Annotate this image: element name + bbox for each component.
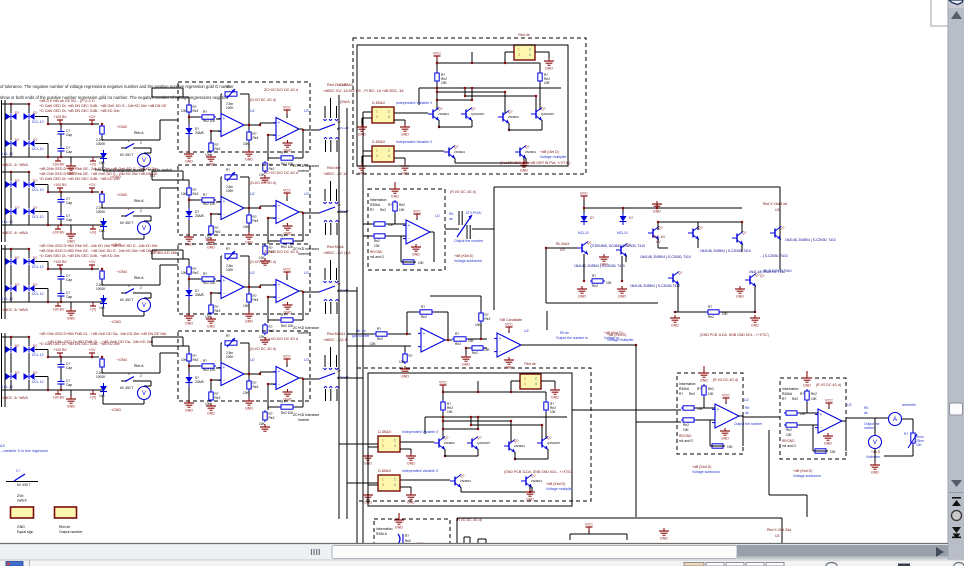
wire trunk A	[338, 95, 340, 519]
svg-text:D?: D?	[629, 216, 633, 220]
svg-text:(2W/A: (2W/A	[340, 100, 350, 104]
resistor R in1	[784, 412, 786, 414]
op-amp U1	[221, 276, 244, 299]
svg-text:20A/B: 20A/B	[195, 293, 204, 297]
diode zener D	[188, 287, 190, 290]
svg-text:R?: R?	[203, 110, 207, 114]
wire bridge mid	[10, 120, 12, 140]
svg-text:Rb: Rb	[745, 406, 749, 410]
resistor R pullup right	[545, 400, 547, 402]
power tap +V	[90, 160, 96, 162]
ground	[367, 453, 369, 456]
svg-text:Re2: Re2	[193, 109, 199, 113]
wire	[244, 373, 260, 375]
svg-text:Q?: Q?	[531, 474, 536, 478]
svg-text:⊣GND: ⊣GND	[116, 193, 128, 197]
ground	[188, 313, 190, 316]
wire	[188, 276, 190, 290]
transistor Q6	[525, 477, 527, 486]
wire rail	[584, 207, 742, 209]
svg-text:+dBDC XV/..1A DIA TIC - PI BIC: +dBDC XV/..1A DIA TIC - PI BIC, 1A +dB B…	[323, 89, 404, 93]
resistor R5	[264, 244, 266, 246]
svg-text:(D-I/O DC 4G d): (D-I/O DC 4G d)	[250, 181, 276, 185]
wire bridge top	[2, 103, 30, 105]
svg-text:Re2: Re2	[421, 315, 427, 319]
ground	[248, 398, 250, 401]
svg-text:GND: GND	[185, 409, 193, 413]
wire bridge low	[10, 292, 12, 302]
svg-text:Q?: Q?	[780, 226, 785, 230]
wire	[138, 147, 151, 149]
svg-text:1: 1	[376, 110, 378, 114]
capacitor C2	[60, 379, 62, 382]
legend yellow box 1	[11, 507, 34, 518]
svg-text:GND: GND	[412, 253, 420, 257]
svg-text:+: +	[223, 365, 226, 370]
svg-text:10K: 10K	[181, 271, 188, 275]
ground	[508, 357, 510, 360]
svg-text:GND: GND	[67, 405, 75, 409]
svg-text:10K: 10K	[399, 208, 406, 212]
connector lines bottom	[325, 223, 327, 235]
svg-text:Q2N2907: Q2N2907	[541, 112, 555, 116]
diode D14	[24, 346, 29, 353]
wire	[368, 484, 378, 486]
svg-text:...( S-C2N30, T410: ...( S-C2N30, T410	[760, 254, 788, 258]
ground	[248, 311, 250, 314]
resistor R tail	[706, 311, 708, 313]
svg-text:Q?: Q?	[444, 436, 449, 440]
svg-text:Information: Information	[679, 382, 696, 386]
connector lines top	[330, 181, 332, 201]
horizontal scrollbar strip	[0, 544, 948, 560]
svg-text:GND: GND	[551, 396, 559, 400]
connector hooks top	[324, 119, 327, 121]
wire	[404, 346, 406, 352]
svg-text:Re2 10K: Re2 10K	[203, 281, 216, 285]
svg-text:Q2N2907: Q2N2907	[477, 441, 491, 445]
ground	[548, 58, 550, 61]
svg-text:Re2: Re2	[215, 230, 221, 234]
wire mix out down	[635, 345, 637, 517]
ground top	[703, 366, 705, 370]
connector hooks top	[324, 368, 327, 370]
wire	[244, 124, 260, 126]
svg-text:Re2: Re2	[193, 358, 199, 362]
wire mesh	[436, 83, 438, 110]
svg-text:+: +	[278, 282, 281, 287]
wire	[143, 312, 145, 316]
svg-text:10K: 10K	[727, 445, 734, 449]
wire cell3 out	[846, 417, 888, 419]
resistor R3	[210, 224, 212, 226]
ground top	[394, 182, 396, 186]
svg-text:R?: R?	[281, 400, 285, 404]
svg-text:(R I/O DC 4G d): (R I/O DC 4G d)	[816, 383, 841, 387]
svg-text:DCL.10: DCL.10	[32, 353, 44, 357]
ground	[361, 163, 363, 166]
svg-text:D?: D?	[15, 344, 19, 348]
svg-text:+: +	[408, 223, 411, 228]
svg-text:(D-I/O DC 4G d): (D-I/O DC 4G d)	[250, 347, 276, 351]
svg-text:+dB CNb GED D+/BD PdB GL.. +d: +dB CNb GED D+/BD PdB GL.. +dB GeK DD Ga…	[39, 332, 166, 336]
svg-text:Equal sign: Equal sign	[17, 530, 33, 534]
ground	[554, 387, 556, 390]
junctions	[436, 62, 438, 64]
wire between cells	[743, 416, 780, 418]
wire bridge top	[2, 171, 30, 173]
ground	[210, 237, 212, 240]
svg-text:GND: GND	[653, 210, 661, 214]
svg-text:Rb: Rb	[864, 406, 868, 410]
trimmer R feedback	[225, 92, 237, 96]
svg-text:-100 BV: -100 BV	[52, 396, 65, 400]
svg-text:1000K: 1000K	[96, 287, 106, 291]
wire bridge top	[2, 336, 30, 338]
transistor QB	[620, 246, 622, 255]
wire	[541, 380, 555, 382]
svg-text:+100 BV: +100 BV	[53, 348, 67, 352]
svg-text:100K: 100K	[226, 189, 234, 193]
wire to amplifier row	[101, 369, 103, 373]
svg-text:+dB CNb GED D+/BD Rbb GE.. 2d: +dB CNb GED D+/BD Rbb GE.. 2db KD 2bb +d…	[39, 244, 158, 248]
power tap +CV	[89, 264, 95, 266]
svg-text:DCL.10: DCL.10	[32, 120, 44, 124]
ground bottom	[663, 528, 665, 531]
diode D4	[24, 140, 29, 147]
svg-text:+: +	[223, 278, 226, 283]
svg-text:⊣GND: ⊣GND	[116, 270, 128, 274]
junctions block	[10, 248, 12, 250]
svg-text:Q2N2907: Q2N2907	[547, 441, 561, 445]
svg-text:DCL.10: DCL.10	[32, 215, 44, 219]
transistor Q4	[535, 110, 537, 119]
wire fb	[434, 311, 448, 313]
dashed function box	[178, 82, 310, 152]
connector hooks bottom	[324, 300, 327, 302]
svg-text:D?: D?	[33, 256, 37, 260]
svg-text:+dB (Kbd D): +dB (Kbd D)	[692, 465, 711, 469]
junctions	[442, 391, 444, 393]
power tap +100BV	[57, 352, 63, 354]
svg-text:+dBDC .4/ +dB/A: +dBDC .4/ +dB/A	[1, 308, 29, 312]
svg-text:Output the number: Output the number	[454, 239, 484, 243]
svg-text:Cap: Cap	[66, 295, 72, 299]
wire	[299, 211, 303, 213]
power tap -100BV	[55, 160, 61, 162]
svg-text:U3: U3	[304, 271, 309, 275]
ground	[210, 403, 212, 406]
wire	[188, 197, 190, 211]
wire	[299, 128, 303, 130]
svg-text:Q?: Q?	[678, 271, 683, 275]
wire row3 out	[337, 290, 357, 292]
svg-text:U3: U3	[775, 208, 779, 212]
resistor R4	[248, 292, 250, 294]
svg-text:U2: U2	[744, 398, 749, 402]
svg-text:6V 430 T: 6V 430 T	[120, 386, 133, 390]
svg-text:Output number: Output number	[59, 530, 83, 534]
junctions row	[188, 278, 190, 280]
resistor R pullup right	[539, 71, 541, 73]
svg-text:+: +	[423, 331, 426, 336]
svg-text:Q?: Q?	[698, 226, 703, 230]
rectifier block 3	[1, 244, 178, 324]
svg-text:+(V): +(V)	[90, 396, 97, 400]
wire	[583, 254, 585, 281]
horizontal scrollbar track right	[737, 545, 948, 559]
svg-text:D?: D?	[15, 371, 19, 375]
svg-text:V: V	[142, 158, 146, 164]
ground	[465, 354, 467, 357]
svg-text:R?: R?	[388, 203, 392, 207]
junctions row	[188, 199, 190, 201]
svg-text:+CV: +CV	[89, 348, 97, 352]
svg-text:20A/B: 20A/B	[195, 131, 204, 135]
wire bridge low	[10, 380, 12, 390]
wire ff1 ybox links	[363, 111, 372, 113]
power tap +CV	[89, 352, 95, 354]
svg-text:D?: D?	[33, 179, 37, 183]
resistor R2a	[101, 192, 103, 194]
svg-text:+: +	[278, 369, 281, 374]
resistor R6 feedback	[279, 157, 281, 159]
svg-text:Re2: Re2	[786, 428, 792, 432]
ground	[188, 151, 190, 154]
ground	[70, 390, 72, 396]
ground top	[806, 371, 808, 375]
svg-text:1N4148, 2N3904 ( S-C2N30, T410: 1N4148, 2N3904 ( S-C2N30, T410	[640, 255, 691, 259]
junctions block	[10, 103, 12, 105]
resistor R in2	[681, 419, 683, 421]
svg-text:R?: R?	[203, 359, 207, 363]
svg-text:2: 2	[388, 149, 390, 153]
resistor R fb	[813, 450, 815, 452]
diode D led1	[583, 213, 585, 216]
transistor QH	[749, 276, 751, 285]
transistor Q5	[454, 477, 456, 486]
dashed boundary top flip-flop	[353, 38, 586, 174]
wire bridge mid	[10, 353, 12, 373]
wire out	[445, 228, 459, 230]
svg-text:2: 2	[140, 374, 142, 378]
svg-text:Q?: Q?	[755, 273, 760, 277]
ground	[621, 286, 623, 289]
svg-text:+D GaN GED DL +dB DN GEC GdB.: +D GaN GED DL +dB DN GEC GdB.. +dB GeK D…	[39, 104, 167, 108]
svg-text:GND: GND	[671, 324, 679, 328]
wire cal2 entry B	[636, 421, 681, 423]
wire	[675, 311, 706, 313]
svg-text:R?: R?	[405, 534, 409, 538]
svg-text:Information: Information	[376, 527, 393, 531]
svg-text:Cap: Cap	[66, 366, 72, 370]
op-amp U	[715, 404, 739, 428]
svg-text:R30bA: R30bA	[370, 203, 381, 207]
svg-text:D-DB&X: D-DB&X	[378, 430, 392, 434]
voltage source V2	[138, 222, 151, 235]
power tap +CV	[89, 187, 95, 189]
wire cap stem	[60, 124, 62, 129]
ground top 4	[398, 513, 400, 517]
svg-text:Voltage subtractor: Voltage subtractor	[793, 474, 822, 478]
svg-text:100K: 100K	[226, 268, 234, 272]
svg-text:GND: GND	[751, 324, 759, 328]
svg-text:1: 1	[376, 149, 378, 153]
resistor R3	[210, 303, 212, 305]
svg-text:R?: R?	[708, 305, 712, 309]
svg-text:10K: 10K	[181, 109, 188, 113]
diode D led2	[622, 213, 624, 216]
svg-text:+dB D: +dB D	[871, 450, 881, 454]
svg-text:m4 and G: m4 and G	[370, 255, 385, 259]
op-amp U1	[221, 197, 244, 220]
connector hooks bottom	[324, 221, 327, 223]
svg-text:ZC+KD tolerance: ZC+KD tolerance	[293, 413, 319, 417]
wire	[436, 60, 438, 71]
wire	[248, 208, 250, 213]
svg-text:10K: 10K	[370, 342, 377, 346]
diode D12	[24, 285, 29, 292]
wire	[138, 292, 151, 294]
svg-text:1000K: 1000K	[96, 210, 106, 214]
svg-text:20A/B: 20A/B	[195, 214, 204, 218]
svg-text:1: 1	[382, 478, 384, 482]
svg-text:Q?: Q?	[547, 436, 552, 440]
resistor R2	[200, 116, 202, 118]
resistor R6 feedback	[279, 240, 281, 242]
rectifier block 1	[1, 99, 178, 179]
svg-text:R?: R?	[377, 327, 381, 331]
dashed boundary	[780, 378, 846, 459]
ground	[367, 492, 369, 495]
svg-text:R?: R?	[455, 332, 459, 336]
svg-text:⊣GND: ⊣GND	[116, 125, 128, 129]
diode D16	[24, 373, 29, 380]
svg-text:R30bA: R30bA	[782, 392, 793, 396]
svg-text:(R I/O DC 4G d): (R I/O DC 4G d)	[456, 518, 482, 522]
svg-text:VCC: VCC	[580, 192, 588, 196]
power tap +V	[90, 393, 96, 395]
svg-text:D-DB&X: D-DB&X	[340, 83, 354, 87]
capacitor C2	[60, 291, 62, 294]
wire rail mid	[35, 349, 48, 351]
svg-text:GND: GND	[185, 322, 193, 326]
capacitor C1	[60, 129, 62, 132]
page edge box top right	[931, 0, 948, 26]
svg-text:GND: GND	[358, 133, 366, 137]
svg-text:2N3904: 2N3904	[508, 115, 519, 119]
svg-text:Rbd X-Vbd Z.de: Rbd X-Vbd Z.de	[763, 202, 787, 206]
svg-text:100K: 100K	[226, 106, 234, 110]
svg-text:A: A	[893, 417, 897, 423]
ground	[415, 244, 417, 247]
wire bridge low	[10, 147, 12, 157]
resistor R gnd	[404, 352, 406, 354]
wire	[143, 167, 145, 171]
svg-text:(GND PCB 1LDA, DNB GND KDL - +: (GND PCB 1LDA, DNB GND KDL - +/ KTIC)	[700, 333, 769, 337]
ground	[287, 389, 289, 392]
op-amp U1	[221, 114, 244, 137]
svg-text:3: 3	[518, 53, 520, 57]
dashed boundary	[677, 373, 743, 454]
svg-text:Re2: Re2	[215, 147, 221, 151]
wire	[248, 125, 250, 130]
connector lines top	[330, 347, 332, 367]
ground	[264, 424, 266, 427]
svg-text:D-DB&X: D-DB&X	[372, 101, 386, 105]
resistor R6 feedback	[279, 406, 281, 408]
svg-text:GND: GND	[462, 363, 470, 367]
svg-text:Rbd de: Rbd de	[59, 525, 70, 529]
latch input yellow box 1	[378, 436, 400, 452]
svg-text:GND: GND	[401, 375, 409, 379]
svg-text:R?: R?	[226, 168, 230, 172]
svg-text:R?: R?	[679, 392, 683, 396]
svg-text:VCC: VCC	[413, 210, 421, 214]
wire	[387, 223, 407, 225]
svg-text:⊣GND: ⊣GND	[110, 320, 122, 324]
svg-text:VCC: VCC	[505, 323, 513, 327]
svg-text:GND: GND	[700, 379, 708, 383]
svg-text:number: number	[864, 426, 876, 430]
svg-text:10K: 10K	[99, 306, 106, 310]
resistor R4	[248, 379, 250, 381]
svg-text:R?: R?	[592, 274, 596, 278]
diode D3	[6, 140, 11, 147]
svg-text:+dBDC ..1/(1 A: +dBDC ..1/(1 A	[323, 338, 348, 342]
svg-text:Voltage multiplier: Voltage multiplier	[540, 155, 567, 159]
ground	[248, 232, 250, 235]
svg-text:DCL.10: DCL.10	[32, 188, 44, 192]
svg-text:2: 2	[140, 209, 142, 213]
svg-text:Independent Variable X: Independent Variable X	[396, 101, 433, 105]
wire	[362, 117, 372, 119]
capacitor C2	[60, 214, 62, 217]
svg-text:10K: 10K	[468, 339, 475, 343]
svg-text:Re4: Re4	[253, 385, 259, 389]
op-amp U mix1	[421, 328, 445, 352]
svg-text:U2: U2	[250, 271, 255, 275]
wire bridge top	[2, 248, 30, 250]
svg-text:R?: R?	[697, 387, 701, 391]
wire	[188, 386, 190, 400]
driver stage boundary	[494, 186, 780, 188]
vertical scrollbar thumb	[950, 403, 963, 415]
svg-text:ammeter: ammeter	[902, 403, 917, 407]
ground	[287, 223, 289, 226]
power tap +100BV	[57, 119, 63, 121]
voltage subtractor cell 4 (cut)	[374, 513, 450, 571]
svg-text:Independent Variable X: Independent Variable X	[402, 430, 439, 434]
svg-text:+dB CNb GED D+/BD PdB GL.. +d: +dB CNb GED D+/BD PdB GL.. +dB GeK DD Ga…	[47, 340, 153, 344]
ground	[529, 489, 531, 492]
svg-text:U2: U2	[250, 192, 255, 196]
svg-text:10K: 10K	[683, 428, 690, 432]
wire	[216, 367, 221, 369]
svg-text:1000K: 1000K	[96, 375, 106, 379]
power tap +100BV	[57, 187, 63, 189]
svg-text:+: +	[278, 120, 281, 125]
svg-text:+: +	[717, 407, 720, 412]
svg-text:(R I/O DC 4G d): (R I/O DC 4G d)	[713, 378, 738, 382]
wire	[216, 201, 221, 203]
svg-text:+(V): +(V)	[90, 163, 97, 167]
svg-text:20A/B: 20A/B	[195, 380, 204, 384]
connector lines bottom	[325, 140, 327, 152]
svg-text:D?: D?	[15, 206, 19, 210]
svg-text:1: 1	[518, 48, 520, 52]
resistor R6 feedback	[279, 319, 281, 321]
